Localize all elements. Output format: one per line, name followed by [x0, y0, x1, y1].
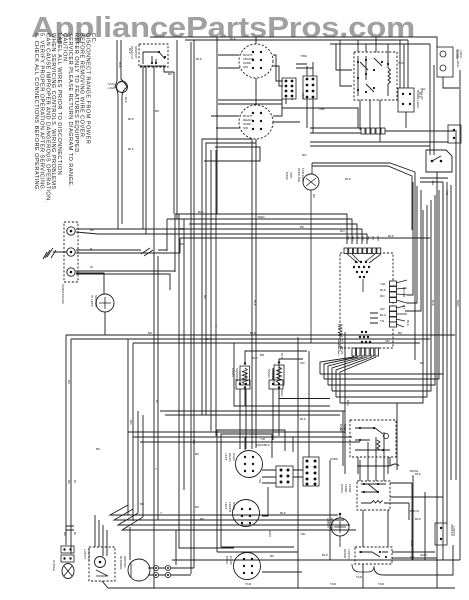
svg-text:BLK: BLK — [250, 331, 257, 335]
svg-text:W: W — [73, 532, 77, 535]
svg-text:SWITCH: SWITCH — [87, 549, 91, 561]
svg-text:LIGHT: LIGHT — [108, 86, 117, 90]
svg-text:DOOR: DOOR — [343, 549, 347, 559]
svg-text:LATCH: LATCH — [347, 549, 351, 559]
svg-text:OR: OR — [300, 361, 305, 365]
svg-text:BLK: BLK — [300, 417, 307, 421]
svg-text:BLK: BLK — [415, 517, 422, 521]
svg-text:RD: RD — [129, 420, 133, 425]
svg-text:BLK: BLK — [406, 320, 410, 327]
svg-text:TN: TN — [380, 319, 384, 323]
svg-text:OR: OR — [380, 307, 385, 311]
svg-text:REAR: REAR — [228, 453, 232, 462]
svg-text:SW: SW — [243, 65, 248, 69]
svg-text:DOOR: DOOR — [455, 50, 459, 60]
svg-text:MOTOR: MOTOR — [123, 556, 127, 568]
svg-text:OR: OR — [361, 236, 365, 241]
svg-text:Y/R: Y/R — [445, 190, 449, 196]
svg-text:Y: Y — [155, 467, 157, 471]
svg-text:BLK: BLK — [128, 48, 132, 55]
svg-text:W: W — [90, 265, 93, 269]
svg-text:LATCH: LATCH — [452, 526, 456, 536]
svg-text:BLK: BLK — [198, 210, 205, 214]
svg-text:Y/BK: Y/BK — [301, 92, 305, 100]
svg-text:BLK: BLK — [230, 37, 237, 41]
svg-text:YEL: YEL — [300, 532, 306, 536]
svg-text:RED: RED — [456, 300, 460, 307]
svg-text:LATCH: LATCH — [83, 549, 87, 559]
svg-text:LATCH: LATCH — [326, 518, 330, 528]
svg-text:BLU: BLU — [340, 427, 346, 431]
svg-text:OVEN: OVEN — [267, 369, 271, 378]
svg-text:SW: SW — [243, 126, 248, 130]
svg-text:BLK: BLK — [388, 234, 395, 238]
svg-text:MAIN: MAIN — [285, 172, 289, 180]
svg-text:BLK: BLK — [128, 117, 135, 121]
svg-text:GY: GY — [410, 555, 414, 559]
svg-text:RD-OR: RD-OR — [402, 287, 406, 298]
svg-text:TERM BLOCK: TERM BLOCK — [61, 284, 65, 305]
svg-text:FRONT: FRONT — [228, 502, 232, 513]
svg-text:SURF: SURF — [232, 502, 236, 511]
svg-text:PROBE: PROBE — [271, 369, 275, 380]
svg-text:Y/R: Y/R — [260, 437, 266, 441]
svg-text:TOP: TOP — [289, 172, 293, 178]
svg-text:W/BK: W/BK — [330, 457, 339, 461]
svg-text:6. CHECK ALL CONNECTIONS BEFOR: 6. CHECK ALL CONNECTIONS BEFORE OPERATIN… — [33, 33, 39, 192]
svg-text:W: W — [73, 480, 77, 483]
svg-text:GY: GY — [402, 305, 406, 309]
svg-text:BLK: BLK — [418, 92, 422, 99]
svg-text:YEL: YEL — [380, 282, 386, 286]
svg-text:TEMP: TEMP — [344, 484, 348, 493]
svg-text:LEFT: LEFT — [224, 502, 228, 510]
svg-text:SWITCH: SWITCH — [134, 46, 138, 58]
svg-text:BLK: BLK — [322, 553, 329, 557]
svg-text:BLK: BLK — [345, 177, 352, 181]
svg-text:BLK: BLK — [118, 62, 122, 69]
svg-text:BLK: BLK — [253, 300, 257, 307]
svg-text:OVEN: OVEN — [340, 484, 344, 493]
svg-text:YEL: YEL — [258, 478, 262, 484]
svg-text:RD: RD — [302, 153, 307, 157]
svg-text:OR: OR — [385, 339, 390, 343]
svg-text:MOTOR: MOTOR — [330, 518, 334, 530]
svg-text:CONT: CONT — [348, 484, 352, 493]
svg-text:RED: RED — [280, 390, 284, 397]
svg-text:BAKE: BAKE — [410, 469, 418, 473]
svg-text:RD: RD — [180, 227, 185, 231]
svg-text:TAN: TAN — [378, 582, 384, 586]
svg-text:TAN: TAN — [245, 582, 251, 586]
svg-text:CHOKE: CHOKE — [52, 560, 56, 571]
svg-text:DLB: DLB — [410, 540, 414, 546]
svg-text:RD: RD — [351, 236, 355, 241]
svg-text:GY: GY — [371, 236, 375, 240]
svg-text:COOLING: COOLING — [297, 168, 301, 183]
svg-text:FAN MTR: FAN MTR — [301, 168, 305, 182]
svg-text:BLK: BLK — [196, 57, 203, 61]
svg-text:Y: Y — [160, 511, 162, 515]
svg-text:SURF: SURF — [232, 453, 236, 462]
svg-text:BLOWER: BLOWER — [119, 556, 123, 570]
svg-text:BROIL: BROIL — [410, 509, 420, 513]
svg-text:TAN: TAN — [398, 61, 404, 65]
svg-text:TAN: TAN — [356, 575, 362, 579]
svg-text:YL: YL — [356, 236, 360, 240]
svg-text:YEL: YEL — [431, 180, 435, 186]
svg-text:BLK: BLK — [380, 288, 387, 292]
svg-text:Y/BK: Y/BK — [300, 54, 308, 58]
svg-text:RED: RED — [258, 215, 265, 219]
svg-text:BLK: BLK — [280, 511, 287, 515]
svg-text:LEFT: LEFT — [224, 453, 228, 461]
svg-text:GY: GY — [206, 337, 210, 341]
svg-text:OVEN: OVEN — [231, 368, 235, 377]
svg-text:DN: DN — [340, 229, 344, 233]
svg-text:LOCK: LOCK — [459, 50, 463, 59]
svg-text:BLK: BLK — [280, 353, 284, 360]
svg-text:TAN: TAN — [330, 582, 336, 586]
svg-text:W: W — [155, 400, 159, 403]
svg-text:BLK: BLK — [431, 300, 435, 307]
svg-text:BR: BR — [260, 353, 265, 357]
svg-text:BLU: BLU — [380, 313, 386, 317]
svg-text:120V/BLK: 120V/BLK — [256, 443, 271, 447]
svg-text:DRN: DRN — [268, 530, 272, 537]
svg-text:BLK: BLK — [346, 400, 350, 407]
svg-text:RD: RD — [380, 294, 385, 298]
svg-text:BLK: BLK — [124, 97, 128, 104]
svg-text:BLK: BLK — [128, 147, 135, 151]
svg-text:M/W ELEC.: M/W ELEC. — [336, 324, 343, 357]
svg-text:SWITCH: SWITCH — [94, 295, 98, 307]
svg-text:Y/BK: Y/BK — [318, 107, 326, 111]
svg-text:WH: WH — [376, 236, 380, 241]
svg-text:GRN: GRN — [420, 553, 427, 557]
svg-text:BLK: BLK — [252, 356, 259, 360]
svg-text:ELEM: ELEM — [229, 556, 233, 565]
svg-text:Y: Y — [214, 325, 218, 327]
svg-text:HI LIMIT: HI LIMIT — [90, 295, 94, 307]
svg-text:BAKE: BAKE — [225, 556, 229, 564]
